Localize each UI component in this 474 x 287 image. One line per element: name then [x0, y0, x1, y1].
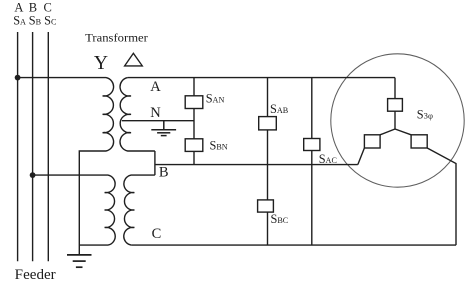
transformer T2 secondary winding (lower right coil)	[124, 175, 155, 245]
motor boundary circle	[331, 54, 464, 187]
svg-text:A: A	[150, 79, 161, 95]
wire branch SAC at x=311.8 (A to C)	[311, 78, 313, 246]
wire motor wye diagonal to right box	[395, 129, 411, 135]
svg-text:S3φ: S3φ	[417, 108, 433, 122]
switch SAB box	[259, 117, 277, 130]
wire feeder phase A vertical line	[17, 32, 19, 261]
wire feeder phase B vertical line	[32, 32, 34, 261]
wire branch SAB/SBC at x=267.5 (A to C)	[267, 78, 269, 246]
svg-text:C: C	[152, 226, 162, 242]
svg-text:B: B	[159, 164, 169, 180]
svg-text:Transformer: Transformer	[85, 30, 148, 44]
wire motor left box to B rail diagonal	[358, 148, 365, 165]
wire step from secondary bottom down to lower transformer (node B stem)	[154, 151, 156, 175]
ground symbol at node N	[151, 121, 176, 136]
switch SBC box	[258, 200, 274, 212]
motor phase box top	[388, 99, 403, 112]
wire motor wye stem	[394, 111, 396, 129]
wire node B rail	[155, 164, 358, 166]
wire node C rail	[131, 244, 456, 246]
switch SAN box	[185, 96, 203, 109]
wire motor right box to C rail via diagonal and vertical	[427, 148, 456, 245]
svg-text:A: A	[14, 0, 23, 14]
junction dot on feeder A	[15, 75, 21, 81]
svg-text:Y: Y	[94, 53, 108, 74]
svg-text:C: C	[44, 0, 52, 14]
delta symbol (triangle)	[125, 53, 143, 66]
motor phase box right	[411, 135, 427, 148]
transformer T1 primary winding (upper left coil) with lead from feeder A and ground lead	[18, 78, 114, 255]
motor phase box left	[364, 135, 380, 148]
wire feeder phase C vertical line	[47, 32, 49, 261]
wire node N tap from secondary center	[122, 120, 194, 122]
svg-text:N: N	[150, 105, 161, 121]
switch SBN box	[185, 139, 203, 152]
wire branch SAN/SBN at x=194 (A to N to B)	[193, 78, 195, 165]
wire motor wye diagonal to left box	[380, 129, 395, 135]
transformer T2 primary winding (lower left coil) with lead from feeder B and ground lead	[33, 175, 116, 245]
svg-text:B: B	[29, 0, 37, 14]
ground symbol main (below transformer primaries)	[67, 255, 92, 267]
junction dot on feeder B	[30, 172, 36, 178]
transformer T1 secondary winding (upper right coil, center tapped)	[120, 78, 155, 151]
wire motor feed drop from A rail to motor top box	[394, 78, 396, 99]
wire node A rail from secondary top to motor corner	[128, 77, 395, 79]
svg-text:Feeder: Feeder	[15, 267, 56, 283]
switch SAC box	[304, 139, 320, 151]
